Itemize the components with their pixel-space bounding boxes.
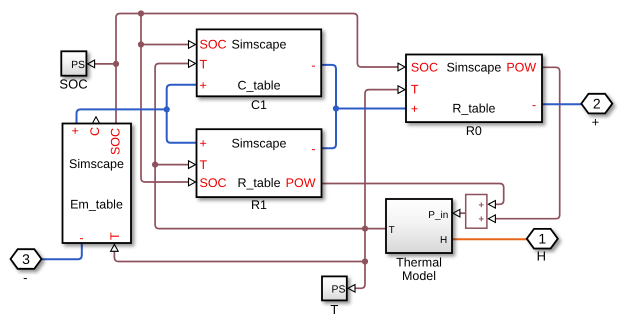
- svg-text:Simscape: Simscape: [446, 61, 501, 75]
- svg-text:T: T: [200, 158, 208, 172]
- svg-text:C_table: C_table: [237, 78, 280, 92]
- svg-text:POW: POW: [506, 61, 536, 75]
- svg-text:Simscape: Simscape: [232, 137, 287, 151]
- svg-text:Simscape: Simscape: [232, 38, 287, 52]
- svg-text:-: -: [532, 98, 536, 112]
- svg-text:R_table: R_table: [452, 102, 495, 116]
- svg-text:H: H: [537, 249, 546, 264]
- svg-text:R_table: R_table: [237, 176, 280, 190]
- svg-text:P_in: P_in: [428, 210, 448, 221]
- svg-text:-: -: [23, 270, 27, 285]
- svg-text:2: 2: [593, 96, 601, 112]
- svg-text:SOC: SOC: [200, 38, 227, 52]
- svg-text:T: T: [108, 232, 122, 240]
- svg-text:T: T: [389, 225, 395, 236]
- svg-text:-: -: [311, 59, 315, 73]
- svg-text:Simscape: Simscape: [69, 157, 124, 171]
- svg-text:R1: R1: [251, 198, 267, 212]
- svg-text:-: -: [311, 142, 315, 156]
- svg-text:T: T: [330, 302, 338, 317]
- svg-text:+: +: [479, 200, 485, 211]
- svg-text:Model: Model: [402, 269, 436, 283]
- svg-text:3: 3: [22, 251, 30, 267]
- svg-text:SOC: SOC: [200, 176, 227, 190]
- svg-text:C: C: [88, 127, 102, 136]
- svg-text:T: T: [411, 82, 419, 96]
- svg-text:+: +: [411, 102, 418, 116]
- svg-text:1: 1: [538, 231, 546, 247]
- svg-text:C1: C1: [251, 98, 267, 112]
- svg-text:Thermal: Thermal: [396, 256, 442, 270]
- svg-text:+: +: [479, 214, 485, 225]
- svg-text:PS: PS: [71, 60, 85, 71]
- svg-text:+: +: [592, 115, 600, 130]
- svg-text:SOC: SOC: [109, 128, 123, 155]
- svg-text:H: H: [440, 235, 447, 246]
- svg-text:+: +: [200, 78, 207, 92]
- svg-text:SOC: SOC: [59, 76, 87, 91]
- svg-text:T: T: [200, 57, 208, 71]
- svg-text:-: -: [79, 231, 83, 245]
- svg-text:Em_table: Em_table: [70, 197, 123, 211]
- svg-text:PS: PS: [332, 285, 346, 296]
- svg-text:+: +: [72, 124, 79, 138]
- svg-text:+: +: [200, 137, 207, 151]
- svg-text:SOC: SOC: [411, 61, 438, 75]
- svg-text:POW: POW: [286, 176, 316, 190]
- svg-text:R0: R0: [466, 124, 482, 138]
